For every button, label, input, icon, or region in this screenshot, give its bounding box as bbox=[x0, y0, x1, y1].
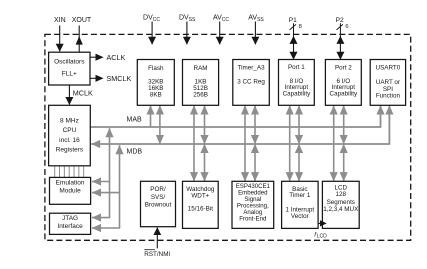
svg-text:Capability: Capability bbox=[283, 91, 312, 98]
svg-text:Function: Function bbox=[376, 93, 401, 100]
signal fLCD from Basic Timer 1 to LCD bbox=[314, 220, 327, 239]
oscillator block FLL+ bbox=[49, 52, 90, 85]
svg-text:Front-End: Front-End bbox=[239, 215, 266, 222]
svg-text:P2: P2 bbox=[336, 17, 344, 24]
svg-text:SMCLK: SMCLK bbox=[107, 74, 132, 83]
svg-text:Oscillators: Oscillators bbox=[54, 58, 85, 65]
svg-text:Vector: Vector bbox=[291, 213, 309, 220]
ESP430CE1 block bbox=[232, 181, 274, 228]
svg-text:incl. 16: incl. 16 bbox=[59, 137, 80, 144]
wire MDB to Basic Timer 1 bbox=[298, 144, 300, 181]
svg-text:USART0: USART0 bbox=[376, 65, 401, 72]
wire Port 2 / LCD address tap bbox=[333, 106, 335, 182]
svg-text:MDB: MDB bbox=[127, 148, 143, 155]
svg-text:8KB: 8KB bbox=[150, 92, 162, 99]
flash memory block bbox=[137, 60, 174, 106]
wire MDB to ESP430CE1 bbox=[254, 144, 256, 181]
svg-text:Port 2: Port 2 bbox=[335, 65, 352, 72]
svg-text:ACLK: ACLK bbox=[107, 53, 126, 62]
pin RST/NMI bbox=[144, 228, 170, 259]
svg-text:Module: Module bbox=[59, 187, 81, 194]
svg-text:POR/: POR/ bbox=[150, 186, 166, 193]
svg-text:P1: P1 bbox=[289, 17, 297, 24]
wire Timer_A3 to MDB bbox=[254, 106, 256, 144]
Port 2 block bbox=[325, 60, 361, 106]
svg-text:XIN: XIN bbox=[54, 17, 66, 24]
svg-text:RAM: RAM bbox=[194, 65, 208, 72]
pin XIN bbox=[54, 17, 66, 51]
emulation module block bbox=[50, 177, 91, 204]
wire Port 1 to MDB bbox=[298, 106, 300, 144]
svg-text:Registers: Registers bbox=[56, 146, 84, 153]
wire MAB tap to Emulation Module and JTAG bbox=[92, 128, 110, 217]
svg-text:FLL+: FLL+ bbox=[62, 70, 77, 77]
svg-text:XOUT: XOUT bbox=[72, 17, 92, 24]
wire Port 2 to MDB bbox=[343, 106, 345, 144]
svg-text:Emulation: Emulation bbox=[56, 179, 85, 186]
pin DVCC bbox=[143, 15, 160, 45]
svg-text:Flash: Flash bbox=[148, 65, 164, 72]
wire Port 1 / Basic Timer 1 address tap bbox=[289, 106, 291, 182]
watchdog timer block bbox=[183, 181, 219, 228]
svg-text:3 CC Reg: 3 CC Reg bbox=[237, 78, 265, 85]
pin P1 (8 I/O) bbox=[289, 17, 302, 59]
clock MCLK to CPU bbox=[69, 85, 93, 105]
MAB address bus bbox=[90, 106, 380, 128]
pin XOUT bbox=[72, 17, 92, 52]
wire Flash to MAB bbox=[150, 106, 152, 127]
pin P2 (6 I/O) bbox=[336, 17, 349, 59]
pin AVSS bbox=[248, 15, 264, 45]
svg-text:15/16-Bit: 15/16-Bit bbox=[188, 205, 213, 212]
Port 1 block bbox=[279, 60, 315, 106]
wire MDB to LCD bbox=[343, 144, 345, 181]
svg-text:8 MHz: 8 MHz bbox=[60, 117, 79, 124]
wire CPU to Emulation Module comb bbox=[55, 166, 84, 177]
wire Flash to MDB bbox=[159, 106, 161, 144]
svg-text:LCD: LCD bbox=[317, 234, 327, 240]
Timer_A3 block bbox=[233, 60, 269, 106]
svg-text:WDT+: WDT+ bbox=[191, 192, 209, 199]
clock output SMCLK bbox=[90, 74, 131, 83]
svg-text:6: 6 bbox=[345, 24, 348, 30]
svg-text:128: 128 bbox=[336, 191, 347, 198]
svg-text:Segments: Segments bbox=[327, 199, 355, 206]
pin AVCC bbox=[213, 15, 229, 45]
svg-text:MAB: MAB bbox=[127, 116, 143, 123]
svg-text:SVS/: SVS/ bbox=[151, 194, 166, 201]
wire RAM to MDB bbox=[204, 106, 206, 144]
clock output ACLK bbox=[90, 53, 125, 62]
wire RAM / Watchdog address tap bbox=[193, 106, 195, 182]
basic timer 1 block bbox=[282, 181, 319, 228]
svg-text:Brownout: Brownout bbox=[145, 202, 172, 209]
pin DVSS bbox=[179, 15, 196, 45]
svg-text:Timer_A3: Timer_A3 bbox=[238, 65, 266, 72]
wire MDB tap to Emulation Module and JTAG bbox=[92, 145, 120, 228]
svg-text:JTAG: JTAG bbox=[62, 215, 78, 222]
svg-text:RST/NMI: RST/NMI bbox=[144, 251, 170, 258]
JTAG interface block bbox=[50, 213, 91, 234]
CPU block bbox=[49, 105, 91, 166]
svg-text:Interface: Interface bbox=[57, 223, 83, 230]
svg-text:Port 1: Port 1 bbox=[288, 64, 305, 71]
svg-text:Capability: Capability bbox=[330, 91, 359, 98]
USART0 block bbox=[370, 60, 405, 106]
wire MDB to Watchdog bbox=[204, 144, 206, 181]
svg-text:CPU: CPU bbox=[63, 127, 77, 134]
svg-text:1,2,3,4 MUX: 1,2,3,4 MUX bbox=[323, 206, 359, 213]
MDB data bus bbox=[91, 106, 389, 156]
RAM block bbox=[183, 60, 219, 106]
LCD driver block bbox=[322, 181, 359, 228]
POR/SVS/Brownout block bbox=[141, 181, 176, 226]
svg-text:256B: 256B bbox=[193, 92, 208, 99]
svg-text:Timer 1: Timer 1 bbox=[289, 192, 311, 199]
svg-text:8: 8 bbox=[299, 24, 302, 30]
svg-text:MCLK: MCLK bbox=[73, 88, 93, 97]
dashed device boundary bbox=[45, 34, 411, 240]
wire Timer_A3 / ESP430CE1 address tap bbox=[244, 106, 246, 182]
